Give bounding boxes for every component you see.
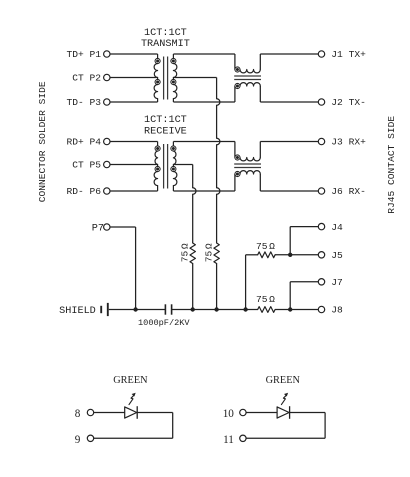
svg-text:SHIELD: SHIELD [59, 306, 96, 317]
svg-text:J3 RX+: J3 RX+ [331, 137, 366, 148]
terminal P2 circle [104, 74, 110, 80]
svg-text:J6 RX-: J6 RX- [331, 186, 366, 197]
terminal 11 circle [240, 435, 246, 441]
transformer T1 primary winding [157, 54, 159, 58]
wire RX center-tap vertical [192, 165, 194, 188]
svg-text:TRANSMIT: TRANSMIT [141, 39, 190, 50]
svg-text:CT P5: CT P5 [72, 160, 101, 171]
svg-text:9: 9 [75, 434, 81, 446]
svg-text:J7: J7 [331, 277, 343, 288]
wire L2 to J6 [259, 174, 261, 191]
junction R4-J8 [288, 307, 292, 311]
wire 8 to LED anode [94, 412, 125, 414]
wire P7 horizontal [110, 226, 136, 228]
terminal 9 circle [87, 435, 93, 441]
choke L2 core [234, 163, 261, 165]
svg-text:10: 10 [223, 408, 235, 420]
resistor R1 75ohm vertical [190, 243, 195, 264]
svg-text:P7: P7 [92, 223, 104, 234]
svg-text:75Ω: 75Ω [256, 241, 275, 252]
junction P7-bus [133, 307, 137, 311]
shield symbol tall bar [107, 303, 109, 316]
svg-text:CONNECTOR SOLDER SIDE: CONNECTOR SOLDER SIDE [37, 81, 48, 202]
wire shield bus mid [172, 309, 258, 311]
wire T2 secondary CT [173, 164, 192, 166]
svg-text:J1 TX+: J1 TX+ [331, 49, 366, 60]
terminal J6 circle [318, 188, 324, 194]
wire LED LED1 cathode to loop [137, 412, 173, 414]
LED DLED2 triangle [277, 407, 289, 418]
resistor R4 75ohm [258, 307, 275, 313]
wire T1 secondary top to L1 [173, 53, 235, 55]
terminal P4 circle [104, 138, 110, 144]
svg-text:1000pF/2KV: 1000pF/2KV [138, 318, 190, 328]
wire 10 to LED anode [246, 412, 277, 414]
transformer T2 secondary winding [172, 142, 174, 146]
transformer T1 core [163, 57, 165, 100]
transformer T1 secondary winding [172, 54, 174, 58]
transformer T2 core [163, 144, 165, 189]
wire shield bus to J8 [275, 309, 318, 311]
LED DLED2 emission arrow [281, 395, 287, 405]
svg-text:CT P2: CT P2 [72, 73, 101, 84]
wire junction to J4 [289, 227, 291, 255]
terminal J3 circle [318, 138, 324, 144]
LED DLED2 cathode bar [289, 406, 291, 419]
junction R2-bus [214, 307, 218, 311]
wire P5 to transformer [110, 164, 158, 166]
svg-text:J4: J4 [331, 222, 343, 233]
resistor R3 75ohm [258, 252, 275, 258]
wire T1 secondary bottom to L1 [173, 101, 235, 103]
svg-text:8: 8 [75, 408, 81, 420]
junction R3R4-bus [243, 307, 247, 311]
wire R3 to J5 [275, 254, 318, 256]
svg-text:J5: J5 [331, 250, 343, 261]
wire P6 to transformer [110, 190, 158, 192]
svg-text:1CT:1CT: 1CT:1CT [144, 28, 187, 39]
svg-text:TD- P3: TD- P3 [66, 97, 101, 108]
terminal 10 circle [240, 409, 246, 415]
svg-text:11: 11 [223, 434, 234, 446]
wire P4 to transformer [110, 141, 158, 143]
svg-text:75Ω: 75Ω [256, 294, 275, 305]
LED DLED1 emission arrow [129, 395, 135, 405]
wire R3 lead left [246, 254, 258, 256]
junction R1-bus [191, 307, 195, 311]
terminal J4 circle [318, 223, 324, 229]
svg-text:1CT:1CT: 1CT:1CT [144, 115, 187, 126]
svg-text:RECEIVE: RECEIVE [144, 126, 187, 137]
wire LED LED2 cathode to loop [290, 412, 326, 414]
terminal 8 circle [87, 409, 93, 415]
wire R2 to shield bus [216, 264, 218, 310]
shield symbol short bar [100, 306, 102, 313]
svg-text:J8: J8 [331, 305, 343, 316]
terminal P1 circle [104, 51, 110, 57]
svg-text:J2 TX-: J2 TX- [331, 97, 366, 108]
svg-text:GREEN: GREEN [113, 375, 148, 386]
svg-text:RJ45 CONTACT SIDE: RJ45 CONTACT SIDE [386, 116, 397, 214]
terminal J2 circle [318, 99, 324, 105]
wire TX center-tap vertical [216, 78, 218, 99]
wire T2 secondary bottom to L2 [173, 190, 235, 192]
svg-text:75Ω: 75Ω [179, 243, 190, 262]
wire shield bus left [109, 309, 166, 311]
junction R3-J5 [288, 253, 292, 257]
terminal P7 circle [104, 224, 110, 230]
terminal P5 circle [104, 161, 110, 167]
wire P3 to transformer [110, 101, 158, 103]
terminal J7 circle [318, 279, 324, 285]
svg-text:RD- P6: RD- P6 [66, 186, 101, 197]
wire T1 secondary CT [173, 77, 216, 79]
choke L1 core [234, 75, 261, 77]
LED DLED1 cathode bar [136, 406, 138, 419]
choke L1 bottom winding [235, 83, 240, 88]
LED DLED1 triangle [125, 407, 137, 418]
svg-text:RD+ P4: RD+ P4 [66, 137, 101, 148]
wire junction to J7 [289, 282, 291, 310]
terminal P3 circle [104, 99, 110, 105]
choke L1 top winding [235, 67, 240, 72]
terminal J8 circle [318, 306, 324, 312]
wire L2 to J3 [259, 142, 261, 158]
wire P2 to transformer [110, 77, 158, 79]
terminal J5 circle [318, 252, 324, 258]
capacitor C1 1000pF/2KV [164, 304, 166, 314]
transformer T2 primary winding [157, 142, 159, 146]
choke L2 bottom winding [235, 171, 240, 176]
wire R3 left leg [245, 255, 247, 310]
resistor R2 75ohm vertical [214, 243, 219, 264]
svg-text:TD+ P1: TD+ P1 [66, 49, 101, 60]
svg-text:75Ω: 75Ω [203, 243, 214, 262]
wire L1 to J2 [259, 86, 261, 102]
terminal J1 circle [318, 51, 324, 57]
wire L1 to J1 [259, 54, 261, 70]
wire P1 to transformer [110, 53, 158, 55]
svg-text:GREEN: GREEN [266, 375, 301, 386]
choke L2 top winding [235, 155, 240, 160]
terminal P6 circle [104, 188, 110, 194]
wire T2 secondary top to L2 [173, 141, 235, 143]
wire P7 vertical [135, 227, 137, 310]
wire R1 to shield bus [192, 264, 194, 310]
